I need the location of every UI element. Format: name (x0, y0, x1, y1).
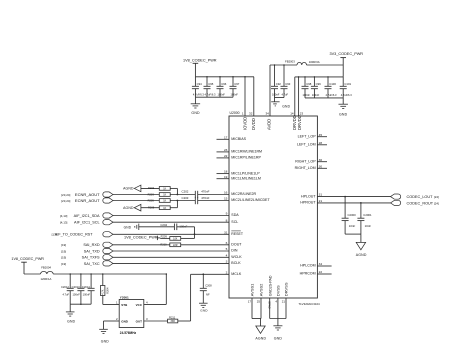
pin MIC1LM/LINE1LM 19 (217, 175, 261, 181)
svg-text:21: 21 (282, 300, 286, 304)
svg-text:3: 3 (226, 260, 228, 264)
pin DIN 5 (226, 247, 238, 253)
svg-text:GND: GND (121, 319, 129, 323)
wire DRVDD pin 23 (297, 77, 304, 130)
resistor R210 22R (113, 243, 181, 247)
svg-text:4.7uF/6.3: 4.7uF/6.3 (341, 93, 353, 97)
wire 3V3 rail to ferrite (270, 64, 343, 66)
pin SDA 9 (226, 212, 240, 218)
svg-text:AIF_I2C1_SCL: AIF_I2C1_SCL (74, 221, 100, 225)
svg-text:100nF: 100nF (218, 92, 226, 96)
svg-text:ECNR_AOUT: ECNR_AOUT (75, 192, 100, 197)
svg-text:GND: GND (274, 336, 283, 340)
ground GND (oscillator) (99, 329, 109, 343)
wire osc rail (53, 273, 166, 275)
svg-text:DVDD: DVDD (251, 118, 256, 130)
wire HP cap bus (345, 234, 361, 242)
svg-text:RIGHT_LOM: RIGHT_LOM (295, 166, 316, 170)
svg-text:TLV320AIC3104: TLV320AIC3104 (299, 302, 321, 306)
pin RIGHT_LOP 36 (295, 158, 327, 164)
svg-text:5: 5 (226, 247, 228, 251)
wire DRVDD pin 14 (290, 77, 297, 130)
svg-text:OUT: OUT (136, 319, 143, 323)
svg-text:[24]: [24] (434, 195, 439, 199)
svg-text:23: 23 (224, 148, 228, 152)
svg-text:1V8_CODEC_PWR: 1V8_CODEC_PWR (124, 236, 158, 240)
wire DVDD pin 32 (249, 77, 256, 130)
svg-text:MIC1RP/LINE1RP: MIC1RP/LINE1RP (231, 156, 261, 160)
svg-text:C98: C98 (306, 82, 312, 86)
svg-text:MICBIAS: MICBIAS (231, 137, 246, 141)
svg-text:U2000: U2000 (230, 111, 240, 115)
oscillator Y2001 24.576MHz (119, 296, 144, 336)
svg-text:MIC1RM/LINE1RM: MIC1RM/LINE1RM (231, 150, 262, 154)
power net 1V8_CODEC_PWR (top left) (183, 58, 217, 76)
svg-text:C204: C204 (160, 223, 167, 227)
svg-text:AIF_TO_CODEC_RST: AIF_TO_CODEC_RST (55, 233, 93, 237)
svg-text:100nF: 100nF (312, 93, 320, 97)
svg-text:32: 32 (249, 112, 253, 116)
svg-text:DIN: DIN (231, 249, 238, 253)
svg-text:23: 23 (300, 112, 304, 116)
node AIF_I2C1_SDA off-page [4,13] (60, 213, 113, 218)
svg-text:31: 31 (224, 230, 228, 234)
svg-text:NF: NF (206, 293, 210, 297)
svg-text:SAI_TXD: SAI_TXD (84, 249, 100, 253)
svg-text:C2001: C2001 (363, 213, 372, 217)
node SAI_TXFS off-page [19] (61, 255, 113, 260)
ground AGND (analog, bottom) (255, 326, 266, 341)
svg-text:SDA: SDA (231, 213, 239, 217)
node AIF_I2C1_SCL off-page [4,13] (60, 220, 113, 225)
svg-text:4.7uF/6.3: 4.7uF/6.3 (326, 93, 338, 97)
capacitor C2013 100nF (72, 274, 85, 304)
svg-text:CODEC_LOUT: CODEC_LOUT (407, 195, 434, 199)
svg-text:C93: C93 (285, 82, 291, 86)
node CODEC_LOUT off-page [24] (391, 194, 440, 199)
svg-text:470nF: 470nF (201, 190, 209, 194)
capacitor C94 4.7uF/6.3 (192, 77, 205, 97)
svg-text:GND2S-PAD: GND2S-PAD (268, 275, 272, 296)
svg-text:R210: R210 (160, 243, 167, 247)
svg-text:GND: GND (282, 105, 290, 109)
wire DRVDD cap bottom bus (305, 97, 343, 99)
wire AVDD feed (269, 65, 271, 116)
svg-text:C99: C99 (316, 82, 322, 86)
svg-text:R206: R206 (148, 206, 155, 210)
op-amp U2000 codec IC TLV320AIC3104 body (229, 111, 320, 306)
capacitor C100 4.7uF/6.3 (325, 77, 338, 98)
svg-text:AGND: AGND (255, 337, 266, 341)
svg-text:8: 8 (226, 218, 228, 222)
wire 1V8 bus (195, 76, 254, 78)
pin SCL 8 (226, 218, 239, 224)
wire HPLOUT (317, 196, 390, 198)
wire AVDD cap bottom bus (275, 97, 285, 99)
svg-text:470nF: 470nF (201, 196, 209, 200)
ground GND (osc caps) (66, 304, 76, 323)
svg-text:4.7uF: 4.7uF (282, 93, 289, 97)
svg-text:100nF: 100nF (231, 92, 239, 96)
svg-text:[23,24]: [23,24] (61, 193, 70, 197)
svg-text:MCLK: MCLK (231, 272, 242, 276)
node SAI_TXC off-page [19] (61, 261, 113, 266)
power net 3V3_CODEC_PWR (top right) (330, 52, 364, 77)
svg-text:AVDD: AVDD (266, 119, 271, 130)
resistor R205 1K (113, 198, 195, 202)
pin AVDD 34 (265, 112, 271, 130)
wire BCLK (113, 262, 229, 264)
svg-text:6: 6 (226, 241, 228, 245)
svg-text:ECNR_AOUT: ECNR_AOUT (75, 198, 100, 203)
pin LEFT_LOM 28 (297, 141, 327, 147)
wire C202 to MIC2R pin (198, 194, 229, 196)
svg-text:C2014: C2014 (82, 285, 90, 289)
svg-text:C92: C92 (276, 82, 282, 86)
capacitor C101 4.7uF/6.3 (340, 77, 353, 98)
pin HPROUT 21 (300, 199, 322, 205)
svg-text:1K: 1K (163, 194, 166, 197)
svg-text:R211: R211 (169, 315, 176, 319)
svg-text:C100: C100 (329, 82, 336, 86)
svg-text:100nF: 100nF (303, 93, 311, 97)
svg-text:16: 16 (224, 191, 228, 195)
svg-text:HPROUT: HPROUT (300, 201, 316, 205)
svg-text:1V8_CODEC_PWR: 1V8_CODEC_PWR (11, 257, 44, 261)
wire DVSS join (270, 319, 286, 326)
svg-text:FB2003: FB2003 (285, 59, 295, 63)
svg-text:C2000: C2000 (348, 213, 357, 217)
svg-text:HPLOUT: HPLOUT (301, 194, 316, 198)
svg-text:1K: 1K (163, 200, 166, 203)
svg-text:33R: 33R (171, 320, 176, 323)
svg-text:28: 28 (319, 141, 323, 145)
svg-text:SAI_TXFS: SAI_TXFS (82, 256, 100, 260)
capacitor C98 100nF (302, 77, 312, 98)
wire DIN (113, 250, 229, 252)
node CODEC_ROUT off-page [24] (391, 200, 440, 205)
pin MIC2R/LINE2R 16 (224, 191, 257, 197)
svg-text:AGND: AGND (123, 206, 134, 210)
pin AVSS1 17 (248, 283, 255, 319)
capacitor C95 4.7uF/6.3 (204, 77, 217, 97)
svg-text:R209: R209 (161, 234, 168, 238)
svg-text:C97: C97 (234, 82, 240, 86)
svg-text:2: 2 (226, 270, 228, 274)
svg-text:9: 9 (226, 212, 228, 216)
svg-text:[19]: [19] (61, 243, 66, 247)
capacitor C204 100nF (139, 223, 188, 230)
svg-text:4.7uF: 4.7uF (62, 293, 69, 297)
power net 1V8_CODEC_PWR (reset pull-up) (124, 236, 160, 241)
pin DVSS 4 (275, 285, 280, 319)
svg-text:4.7uF/6.3: 4.7uF/6.3 (193, 92, 205, 96)
svg-text:C203: C203 (182, 196, 189, 200)
svg-text:4.7uF/6.3: 4.7uF/6.3 (205, 92, 217, 96)
svg-text:AVSS2: AVSS2 (259, 283, 264, 296)
ground GND (AVDD bank) (271, 98, 290, 109)
svg-text:[23,24]: [23,24] (61, 199, 70, 203)
svg-text:GND: GND (200, 308, 208, 312)
ferrite bead FB203 100R/3A (285, 59, 320, 65)
svg-text:RIGHT_LOP: RIGHT_LOP (295, 159, 316, 163)
svg-text:GND: GND (124, 226, 132, 230)
svg-text:14: 14 (290, 112, 294, 116)
svg-text:GND: GND (67, 320, 75, 324)
pin GND2S-PAD thermal pad (267, 275, 272, 318)
resistor R202 1K (141, 186, 178, 190)
svg-text:MIC1LM/LINE1LM: MIC1LM/LINE1LM (231, 176, 261, 180)
svg-text:19: 19 (224, 175, 228, 179)
svg-text:100nF: 100nF (83, 293, 91, 297)
pin DOUT 6 (226, 241, 243, 247)
svg-text:CODEC_ROUT: CODEC_ROUT (407, 201, 434, 205)
svg-text:RESET: RESET (231, 232, 244, 236)
svg-text:FB2004: FB2004 (41, 265, 51, 269)
pin WCLK 4 (226, 253, 243, 259)
ground GND (3V3 bank) (338, 98, 347, 117)
wire AVSS join (252, 319, 261, 327)
capacitor C92 (AVDD decoupling) (271, 65, 281, 98)
svg-text:R203: R203 (148, 192, 155, 196)
wire R210 to DOUT (181, 244, 229, 246)
svg-text:31: 31 (319, 193, 323, 197)
ground AGND (HP filter) (356, 242, 367, 257)
capacitor C97 100nF (230, 77, 240, 97)
svg-text:4: 4 (226, 253, 228, 257)
resistor R206 1K (141, 206, 178, 210)
resistor R209 10K (160, 234, 194, 240)
svg-text:GND: GND (191, 111, 200, 115)
svg-text:BCLK: BCLK (231, 261, 241, 265)
ground AGND (row D) (123, 204, 141, 211)
wire OUT to MCLK (178, 274, 191, 321)
wire reset RC node (177, 227, 195, 239)
ground GND (MCLK cap) (199, 303, 208, 312)
svg-text:22: 22 (224, 154, 228, 158)
resistor R211 33R (MCLK series) (144, 315, 178, 323)
wire SCL (113, 221, 229, 223)
svg-text:STB: STB (121, 303, 128, 307)
svg-text:R204: R204 (106, 287, 110, 294)
svg-text:Y2001: Y2001 (120, 296, 129, 300)
wire RESET (113, 233, 229, 235)
svg-text:21: 21 (319, 199, 323, 203)
ground GND (1V8 bank) (191, 97, 200, 115)
svg-text:SAI_TXC: SAI_TXC (84, 262, 100, 266)
svg-text:LEFT_LOP: LEFT_LOP (298, 134, 317, 138)
pin RIGHT_LOM 30 (295, 164, 327, 170)
capacitor C208 NF (MCLK filter) (200, 274, 212, 303)
wire GND pin 2 (104, 317, 120, 329)
svg-text:EPAD: EPAD (267, 302, 271, 309)
svg-text:1K: 1K (163, 207, 166, 210)
pin HPLOUT 31 (301, 193, 322, 199)
wire STB (103, 300, 119, 304)
wire MCLK (191, 273, 229, 275)
svg-text:C94: C94 (197, 82, 203, 86)
svg-text:DRVDD: DRVDD (297, 115, 302, 130)
wire SDA (113, 215, 229, 217)
svg-text:100nF: 100nF (72, 293, 80, 297)
capacitor C96 100nF (217, 77, 227, 97)
svg-text:100nF: 100nF (272, 93, 280, 97)
svg-text:WCLK: WCLK (231, 255, 242, 259)
node SAI_RXD off-page [19] (61, 242, 113, 247)
pin RESET 31 (active low) (224, 230, 244, 236)
pin BCLK 3 (226, 260, 242, 266)
svg-text:30: 30 (319, 164, 323, 168)
node ECNR_AOUT 2 off-page [23,24] (61, 198, 113, 203)
svg-text:34: 34 (265, 112, 269, 116)
power net 1V8_CODEC_PWR (oscillator) (11, 257, 44, 274)
wire IOVDD pin 1 (242, 77, 247, 130)
svg-text:MIC2L/LINE2L/MICDET: MIC2L/LINE2L/MICDET (231, 198, 270, 202)
svg-text:SAI_RXD: SAI_RXD (83, 243, 100, 247)
svg-text:VCC: VCC (136, 303, 143, 307)
pin HPLCOM 34 (300, 262, 331, 268)
svg-text:AIF_I2C1_SDA: AIF_I2C1_SDA (74, 214, 100, 218)
svg-text:DRVSS: DRVSS (284, 282, 289, 296)
node ECNR_AOUT 1 off-page [23,24] (61, 192, 113, 197)
svg-text:DOUT: DOUT (231, 243, 242, 247)
svg-text:C95: C95 (208, 82, 214, 86)
svg-text:LEFT_LOM: LEFT_LOM (297, 143, 316, 147)
svg-text:[24]: [24] (434, 201, 439, 205)
svg-text:10nF: 10nF (365, 224, 372, 228)
pin HPRCOM 22 (300, 270, 332, 276)
wire row A to MIC2R node (177, 188, 179, 195)
resistor R204 4.7K (STB pull-up) (101, 274, 110, 304)
svg-text:1K: 1K (163, 187, 166, 190)
svg-text:AGND: AGND (123, 187, 134, 191)
svg-text:1V8_CODEC_PWR: 1V8_CODEC_PWR (183, 58, 217, 62)
svg-text:HPRCOM: HPRCOM (300, 272, 316, 276)
ground AGND (row A) (123, 185, 141, 192)
wire osc rail left (24, 273, 41, 275)
wire row D to MIC2L node (176, 201, 178, 208)
pin MCLK 2 (226, 270, 242, 276)
node AIF_TO_CODEC_RST off-page [13] (52, 232, 113, 237)
svg-text:C2013: C2013 (72, 285, 80, 289)
svg-text:25: 25 (257, 300, 261, 304)
svg-text:17: 17 (224, 135, 228, 139)
svg-text:3V3_CODEC_PWR: 3V3_CODEC_PWR (330, 52, 364, 56)
svg-text:C96: C96 (221, 82, 227, 86)
svg-text:HPLCOM: HPLCOM (300, 264, 315, 268)
pin MIC1RM/LINE1RM 23 (217, 148, 263, 154)
node SAI_TXD off-page [19] (61, 248, 113, 253)
svg-text:34: 34 (319, 262, 323, 266)
svg-text:DVSS: DVSS (276, 285, 281, 296)
svg-text:GND: GND (339, 113, 348, 117)
ground GND (reset cap) (124, 224, 139, 230)
capacitor C2000 10nF (342, 197, 357, 235)
svg-text:MIC2R/LINE2R: MIC2R/LINE2R (231, 192, 256, 196)
svg-text:36: 36 (319, 158, 323, 162)
pin LEFT_LOP 45 (298, 133, 327, 139)
svg-text:SCL: SCL (231, 220, 238, 224)
svg-text:100R/3A: 100R/3A (309, 60, 320, 64)
resistor R203 1K (113, 192, 195, 196)
svg-text:15: 15 (224, 197, 228, 201)
capacitor C93 (AVDD decoupling) (281, 65, 291, 98)
svg-text:[19]: [19] (61, 262, 66, 266)
svg-text:AVSS1: AVSS1 (250, 283, 255, 296)
capacitor C2012 4.7uF (61, 274, 74, 304)
svg-text:[19]: [19] (61, 256, 66, 260)
svg-text:[4,13]: [4,13] (60, 214, 68, 218)
svg-text:IOVDD: IOVDD (242, 117, 247, 130)
svg-text:[19]: [19] (61, 249, 66, 253)
pin MICBIAS 17 (217, 135, 247, 141)
wire DRVDD top bus (295, 76, 343, 78)
svg-text:C101: C101 (344, 82, 351, 86)
svg-text:AGND: AGND (356, 253, 367, 257)
pin DRVSS 21 (282, 282, 289, 318)
wire 1V8 cap bottom bus (195, 96, 233, 98)
wire HPROUT (317, 202, 390, 204)
svg-text:10nF: 10nF (349, 224, 356, 228)
svg-text:45: 45 (319, 133, 323, 137)
wire WCLK (113, 256, 229, 258)
svg-text:[4,13]: [4,13] (60, 221, 68, 225)
svg-text:GND: GND (101, 339, 109, 343)
ferrite bead FB204 120R/1A (41, 265, 54, 281)
svg-text:18: 18 (224, 170, 228, 174)
svg-text:C208: C208 (205, 283, 212, 287)
pin AVSS2 25 (257, 283, 264, 319)
capacitor C2014 100nF (82, 274, 95, 304)
svg-text:24.576MHz: 24.576MHz (120, 331, 137, 335)
wire C203 to MIC2L pin (198, 200, 229, 202)
svg-text:C202: C202 (182, 190, 189, 194)
pin MIC2L/LINE2L/MICDET 15 (224, 197, 271, 203)
svg-text:22R: 22R (173, 244, 178, 247)
svg-text:MIC1LP/LINE1LP: MIC1LP/LINE1LP (231, 171, 260, 175)
capacitor C99 100nF (311, 77, 321, 98)
svg-text:17: 17 (248, 300, 252, 304)
pin MIC1LP/LINE1LP 18 (217, 170, 261, 176)
capacitor C202 470nF (182, 190, 210, 199)
pin MIC1RP/LINE1RP 22 (217, 154, 262, 160)
svg-text:120R/1A: 120R/1A (41, 277, 52, 281)
svg-text:22: 22 (319, 270, 323, 274)
svg-text:10K: 10K (173, 237, 178, 240)
svg-text:4.7K: 4.7K (102, 289, 105, 294)
svg-text:R202: R202 (148, 186, 155, 190)
svg-text:C2012: C2012 (61, 285, 69, 289)
ground GND (digital, bottom) (273, 326, 282, 341)
capacitor C203 470nF (182, 196, 210, 204)
svg-text:R205: R205 (148, 198, 155, 202)
wire VCC pin 4 (144, 274, 167, 304)
capacitor C2001 10nF (357, 203, 372, 234)
wire osc cap bottom bus (70, 303, 91, 305)
